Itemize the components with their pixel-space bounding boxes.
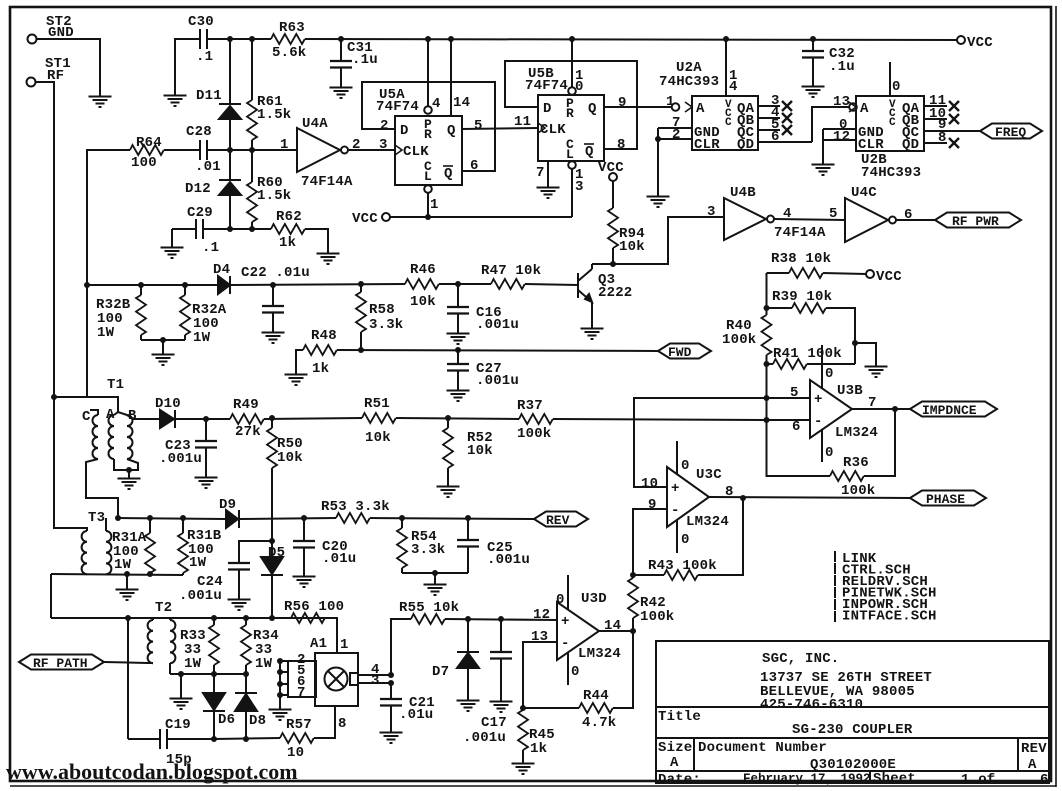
wire R48 left to ground: [296, 350, 303, 368]
svg-text:A: A: [1028, 757, 1037, 773]
svg-text:2: 2: [380, 118, 389, 134]
resistor R49: [230, 397, 264, 440]
svg-text:1: 1: [430, 197, 439, 213]
net flag RF PWR: [935, 213, 1021, 230]
svg-text:IMPDNCE: IMPDNCE: [922, 403, 977, 418]
capacitor C27: [447, 350, 519, 389]
svg-text:.001u: .001u: [159, 451, 202, 467]
wire D9 to R53 and REV: [239, 518, 336, 519]
wire R64 left to vertical feed: [87, 150, 130, 397]
ground T1 secondary: [118, 472, 141, 489]
svg-text:.1: .1: [202, 240, 219, 256]
U2B pin 10 stub: [890, 62, 901, 96]
svg-text:CLR: CLR: [858, 137, 884, 153]
wire C30 left to ground: [175, 39, 200, 89]
U5A pin 14: [451, 39, 470, 116]
svg-text:R51: R51: [364, 396, 390, 412]
svg-text:INTFACE.SCH: INTFACE.SCH: [842, 609, 937, 625]
svg-text:C28: C28: [186, 124, 212, 140]
resistor R63: [271, 20, 306, 61]
svg-text:6: 6: [792, 419, 801, 435]
svg-text:4.7k: 4.7k: [582, 715, 616, 731]
svg-text:7: 7: [297, 685, 306, 701]
wire C19 tap down: [127, 618, 129, 739]
svg-text:8: 8: [938, 130, 947, 146]
resistor R46: [405, 262, 439, 310]
wire RF line down to T3: [54, 397, 87, 531]
wire R46 to R47: [439, 283, 491, 285]
svg-text:CLK: CLK: [540, 122, 566, 138]
svg-text:.1u: .1u: [829, 59, 855, 75]
svg-text:R48: R48: [311, 328, 337, 344]
svg-text:R: R: [424, 127, 432, 142]
svg-text:74F74: 74F74: [376, 99, 419, 115]
U5B pin 10 preset bubble: [568, 39, 583, 95]
svg-text:.001u: .001u: [179, 588, 222, 604]
svg-text:-: -: [814, 414, 823, 430]
svg-text:8: 8: [338, 716, 347, 732]
svg-text:C30: C30: [188, 14, 214, 30]
U2A output QB pin 4: [758, 105, 792, 123]
svg-text:3.3k: 3.3k: [369, 317, 403, 333]
svg-text:4: 4: [729, 79, 738, 95]
svg-text:9: 9: [648, 497, 657, 513]
svg-text:13: 13: [531, 629, 548, 645]
svg-text:VCC: VCC: [352, 211, 378, 227]
svg-text:U3B: U3B: [837, 383, 863, 399]
capacitor C16: [447, 284, 519, 333]
wire R40 node to U3B plus input: [767, 397, 811, 399]
wire R47 to Q3 base: [525, 284, 578, 285]
svg-text:.01u: .01u: [322, 551, 356, 567]
svg-text:R46: R46: [410, 262, 436, 278]
ground C29: [171, 229, 173, 241]
net flag FREQ: [980, 124, 1042, 141]
ground C24: [228, 593, 251, 610]
svg-text:A: A: [670, 755, 679, 771]
ground C30: [164, 89, 187, 106]
svg-text:R63: R63: [279, 20, 305, 36]
wire U5B Q to U2A input: [604, 106, 671, 108]
svg-text:2222: 2222: [598, 285, 632, 301]
op-amp U3D: [557, 591, 621, 662]
svg-text:R: R: [566, 106, 574, 121]
wire U3B output to IMPDNCE: [852, 408, 910, 410]
ground R45: [512, 757, 535, 774]
svg-text:Size: Size: [658, 740, 692, 756]
resistor R36 feedback: [767, 409, 896, 499]
svg-text:RF PWR: RF PWR: [952, 214, 999, 229]
ground U2A: [647, 190, 670, 207]
svg-text:CLR: CLR: [694, 137, 720, 153]
capacitor C22: [241, 265, 310, 326]
svg-text:0: 0: [571, 664, 580, 680]
ground C27: [447, 384, 470, 401]
wire ST1 down left side to T1/T3: [36, 82, 54, 397]
svg-text:R43 100k: R43 100k: [648, 558, 717, 574]
diode D4: [213, 262, 230, 294]
svg-text:11: 11: [514, 114, 531, 130]
U2B output QC pin 9 to FREQ: [924, 117, 980, 133]
ground divider: [865, 360, 888, 377]
resistor R44 feedback: [520, 631, 633, 731]
diode D8: [235, 674, 266, 739]
svg-text:0: 0: [825, 445, 834, 461]
mixer A1: [288, 636, 358, 706]
net flag PHASE: [910, 491, 986, 508]
wire R49 to R51: [264, 418, 362, 419]
U2B output QB pin 10: [924, 106, 959, 124]
svg-text:100k: 100k: [841, 483, 875, 499]
wire U5A Q to U5B CLK: [462, 128, 538, 129]
svg-text:.1: .1: [196, 49, 213, 65]
wire U4C to RF PWR flag: [896, 219, 935, 221]
wire junction to U3C plus input: [634, 398, 767, 487]
node VCC feed lower: [352, 211, 572, 227]
svg-text:R58: R58: [369, 302, 395, 318]
capacitor C28: [164, 124, 230, 175]
capacitor C20: [293, 518, 356, 570]
diode D12: [185, 150, 241, 229]
svg-text:D11: D11: [196, 88, 222, 104]
svg-text:D5: D5: [268, 545, 285, 561]
svg-text:U3C: U3C: [696, 467, 722, 483]
svg-text:LM324: LM324: [578, 646, 621, 662]
wire VCC top rail: [207, 38, 271, 40]
wire U5A feedback Q-bar to D: [362, 82, 495, 171]
svg-text:C: C: [889, 117, 896, 129]
hierarchy link list: [835, 551, 937, 625]
resistor R94: [608, 181, 645, 264]
ground D7: [457, 694, 480, 711]
flip-flop U5A 74F74: [376, 87, 462, 185]
svg-text:74F14A: 74F14A: [774, 225, 826, 241]
svg-text:D12: D12: [185, 181, 211, 197]
node VCC for R94: [598, 160, 624, 181]
svg-text:3: 3: [707, 204, 716, 220]
svg-text:D10: D10: [155, 396, 181, 412]
svg-text:RF PATH: RF PATH: [33, 656, 88, 671]
svg-text:0: 0: [575, 79, 584, 95]
wire R55 to U3D plus input: [445, 619, 557, 620]
op-amp U4A inverter: [280, 116, 388, 190]
ground R62: [317, 247, 340, 264]
counter U2A 74HC393: [659, 60, 758, 153]
svg-text:10k: 10k: [365, 430, 391, 446]
U2A output QD pin 6 to U2B: [758, 129, 812, 145]
resistor R39: [767, 289, 856, 364]
svg-text:R36: R36: [843, 455, 869, 471]
svg-text:www.aboutcodan.blogspot.com: www.aboutcodan.blogspot.com: [6, 759, 298, 784]
svg-text:+: +: [814, 392, 823, 408]
svg-text:+: +: [671, 481, 680, 497]
diode D10: [155, 396, 181, 428]
wire FWD rail: [337, 350, 658, 351]
wire U5B feedback Q-bar to D: [505, 61, 637, 149]
wire R32 bottoms to ground: [141, 339, 185, 341]
svg-text:100k: 100k: [722, 332, 756, 348]
wire R53 to REV flag: [370, 518, 534, 519]
svg-text:C17: C17: [481, 715, 507, 731]
svg-text:A1: A1: [310, 636, 327, 652]
ground T3: [126, 574, 128, 583]
wire T3 rail down to T2 rail: [50, 574, 52, 618]
wire VCC rail to VCC terminal: [305, 39, 957, 40]
capacitor C19: [128, 717, 214, 768]
svg-text:74F74: 74F74: [525, 78, 568, 94]
svg-text:100: 100: [131, 155, 157, 171]
svg-text:0: 0: [556, 592, 565, 608]
capacitor C25: [457, 518, 530, 573]
resistor R54: [397, 518, 445, 573]
U3D power stubs: [556, 575, 580, 685]
A1 ground bus pins 2 5 6 7: [277, 652, 306, 703]
svg-text:VCC: VCC: [967, 35, 993, 51]
svg-text:D7: D7: [432, 664, 449, 680]
svg-text:U4B: U4B: [730, 185, 756, 201]
ground R52: [437, 480, 460, 497]
svg-text:74HC393: 74HC393: [659, 74, 719, 90]
resistor R32B: [96, 285, 146, 341]
svg-text:U3D: U3D: [581, 591, 607, 607]
svg-text:D9: D9: [219, 497, 236, 513]
svg-text:1.5k: 1.5k: [257, 107, 291, 123]
resistor R41: [767, 346, 856, 369]
diode D5: [261, 518, 285, 618]
svg-text:2: 2: [672, 127, 681, 143]
svg-text:C22 .01u: C22 .01u: [241, 265, 310, 281]
svg-text:D: D: [400, 123, 409, 139]
A1 output pins 4 3: [358, 662, 394, 689]
diode D7: [432, 619, 479, 694]
svg-text:R56 100: R56 100: [284, 599, 344, 615]
capacitor C21: [380, 683, 435, 726]
svg-text:7: 7: [868, 395, 877, 411]
ground R48: [285, 368, 308, 385]
U2B output QD pin 8: [924, 130, 959, 148]
svg-text:.01u: .01u: [399, 707, 433, 723]
svg-text:U4C: U4C: [851, 185, 877, 201]
net flag REV: [534, 512, 588, 529]
ground U2B: [812, 158, 835, 175]
resistor R60: [247, 150, 291, 229]
svg-text:6: 6: [1040, 772, 1049, 788]
svg-text:100k: 100k: [640, 609, 674, 625]
svg-text:1W: 1W: [255, 656, 273, 672]
svg-text:SGC, INC.: SGC, INC.: [762, 651, 839, 667]
svg-text:3: 3: [371, 673, 380, 689]
svg-text:Q: Q: [585, 144, 594, 160]
capacitor C24: [179, 538, 275, 604]
ground A1: [269, 703, 292, 720]
op-amp U4B inverter: [724, 185, 826, 241]
wire QD to U2B input: [812, 107, 849, 142]
svg-text:FREQ: FREQ: [995, 125, 1026, 140]
title block: [656, 641, 1049, 783]
svg-text:D: D: [543, 101, 552, 117]
svg-text:9: 9: [618, 95, 627, 111]
svg-text:100k: 100k: [517, 426, 551, 442]
svg-text:0: 0: [681, 458, 690, 474]
svg-text:10k: 10k: [277, 450, 303, 466]
svg-text:Sheet: Sheet: [873, 771, 916, 787]
resistor R34: [241, 618, 279, 674]
wire R56 to A1 pin 1: [325, 618, 337, 653]
svg-text:R47 10k: R47 10k: [481, 263, 541, 279]
svg-text:A: A: [696, 101, 705, 117]
resistor R40: [722, 273, 772, 398]
svg-text:12: 12: [533, 607, 550, 623]
capacitor C32: [802, 40, 855, 80]
svg-text:0: 0: [681, 532, 690, 548]
svg-text:REV: REV: [1021, 741, 1047, 757]
capacitor C30: [188, 14, 214, 65]
op-amp U3B: [810, 380, 878, 441]
svg-text:QD: QD: [737, 137, 754, 153]
resistor R42: [628, 575, 674, 631]
wire U4A output to U5A CLK: [348, 149, 395, 151]
svg-text:14: 14: [453, 95, 470, 111]
svg-text:1: 1: [280, 137, 289, 153]
diode D11: [196, 39, 241, 150]
svg-text:R55 10k: R55 10k: [399, 600, 459, 616]
svg-text:PHASE: PHASE: [926, 492, 965, 507]
counter U2B 74HC393: [849, 96, 924, 181]
svg-text:Q: Q: [588, 101, 597, 117]
ground C17: [490, 695, 513, 712]
svg-text:C19: C19: [165, 717, 191, 733]
svg-text:4: 4: [432, 96, 441, 112]
svg-text:1 of: 1 of: [961, 772, 995, 788]
U2B pins to ground: [823, 117, 856, 158]
resistor R38: [767, 251, 867, 278]
svg-text:74F14A: 74F14A: [301, 174, 353, 190]
ground C22: [262, 326, 285, 343]
svg-text:1k: 1k: [279, 235, 296, 251]
svg-text:R41 100k: R41 100k: [773, 346, 842, 362]
U5A pin 1 clear bubble: [424, 185, 438, 217]
resistor R32A: [180, 285, 227, 346]
capacitor C17: [463, 619, 512, 746]
wire U3C output to PHASE: [709, 497, 910, 498]
svg-text:10k: 10k: [467, 443, 493, 459]
net flag FWD: [658, 344, 711, 361]
resistor R51: [362, 396, 396, 446]
wire T3 bottom rail: [51, 574, 183, 575]
svg-text:12: 12: [833, 129, 850, 145]
svg-text:3.3k: 3.3k: [411, 542, 445, 558]
svg-text:R39 10k: R39 10k: [772, 289, 832, 305]
svg-text:1k: 1k: [312, 361, 329, 377]
U5A pin 4 preset bubble: [424, 39, 440, 114]
wire R33 R34 bottom rail: [170, 673, 246, 675]
svg-text:T1: T1: [107, 377, 124, 393]
resistor R31A: [112, 518, 155, 575]
svg-text:13: 13: [833, 94, 850, 110]
svg-text:1W: 1W: [114, 557, 132, 573]
U3C power stubs: [677, 441, 690, 553]
wire U3D inverting input: [523, 642, 557, 708]
svg-text:R44: R44: [583, 688, 609, 704]
resistor R47: [481, 263, 541, 289]
terminal ST2 GND: [28, 14, 74, 44]
svg-text:FWD: FWD: [668, 345, 692, 360]
svg-text:14: 14: [604, 618, 621, 634]
resistor R31B: [178, 518, 222, 575]
ground C32: [802, 80, 825, 97]
capacitor C29: [172, 205, 230, 256]
svg-text:74HC393: 74HC393: [861, 165, 921, 181]
svg-text:February 17, 1992: February 17, 1992: [743, 772, 871, 786]
svg-text:Date:: Date:: [658, 772, 701, 788]
svg-text:D4: D4: [213, 262, 230, 278]
svg-text:1k: 1k: [530, 741, 547, 757]
ground R32: [152, 348, 175, 365]
svg-text:10k: 10k: [619, 239, 645, 255]
wire C28 to U4A input: [230, 149, 297, 151]
ground Q3 emitter: [581, 322, 604, 339]
svg-text:1W: 1W: [193, 330, 211, 346]
net flag IMPDNCE: [910, 402, 997, 419]
wire RF sense rail y284: [87, 284, 218, 286]
resistor R61: [247, 39, 291, 150]
node VCC terminal top right: [957, 35, 993, 51]
svg-text:Q: Q: [444, 166, 453, 182]
transformer T2: [147, 600, 175, 674]
svg-text:1: 1: [666, 94, 675, 110]
ground C20: [293, 570, 316, 587]
wire node link: [766, 398, 768, 420]
U3B power stubs: [822, 345, 834, 462]
svg-text:R53 3.3k: R53 3.3k: [321, 499, 390, 515]
wire D4 to R46: [230, 284, 405, 285]
svg-text:A: A: [860, 101, 869, 117]
svg-text:CLK: CLK: [403, 144, 429, 160]
capacitor C31: [330, 39, 378, 81]
resistor R53: [321, 499, 390, 523]
resistor R48: [303, 328, 337, 377]
op-amp U3C: [667, 467, 729, 530]
wire C29 to R62: [230, 228, 271, 230]
node VCC at R38: [866, 269, 902, 285]
resistor R37: [517, 398, 553, 442]
wire T1 B to D10: [127, 415, 160, 419]
svg-text:U4A: U4A: [302, 116, 328, 132]
ground ST2: [89, 90, 112, 107]
svg-text:L: L: [424, 169, 432, 184]
wire R39 node to ground: [855, 343, 876, 360]
svg-text:1: 1: [340, 637, 349, 653]
svg-text:5: 5: [474, 118, 483, 134]
wire T1 top feed: [54, 397, 118, 413]
U2A output QA pin 3: [758, 93, 792, 111]
svg-text:8: 8: [617, 137, 626, 153]
flip-flop U5B 74F74: [525, 66, 604, 162]
wire U3C inverting input: [633, 509, 667, 575]
svg-text:.001u: .001u: [463, 730, 506, 746]
svg-text:5: 5: [790, 385, 799, 401]
svg-text:R38 10k: R38 10k: [771, 251, 831, 267]
svg-text:R64: R64: [136, 135, 162, 151]
wire C19 rail to R57: [214, 738, 280, 739]
svg-text:.01: .01: [195, 159, 221, 175]
wire RF PATH to T2: [104, 662, 147, 663]
node dots on VCC rail: [227, 36, 233, 42]
svg-text:-: -: [561, 636, 570, 652]
svg-text:1.5k: 1.5k: [257, 188, 291, 204]
svg-text:T2: T2: [155, 600, 172, 616]
resistor R50: [267, 418, 303, 518]
